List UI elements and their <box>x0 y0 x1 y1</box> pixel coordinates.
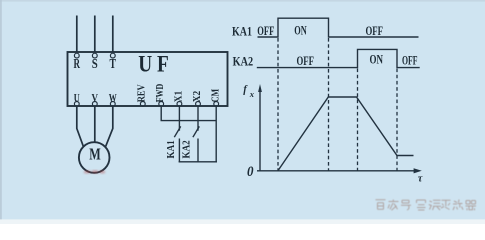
svg-text:f: f <box>243 85 248 96</box>
waveform KA1 <box>258 18 419 37</box>
wire X2 lower <box>197 139 199 162</box>
wire CM down <box>215 106 217 162</box>
wire common bottom <box>179 161 217 163</box>
dashed line KA2 on edge <box>357 69 359 171</box>
photo edge top <box>0 0 485 2</box>
f axis vertical <box>259 88 261 171</box>
dashed line KA1 on edge <box>277 38 279 171</box>
switch KA2 <box>193 126 199 137</box>
wire V to motor <box>94 106 96 142</box>
motor M1 <box>79 142 110 173</box>
terminal V <box>92 102 97 107</box>
inverter block U1 <box>68 52 228 106</box>
wire FWD to CM <box>161 106 216 120</box>
svg-text:U F: U F <box>138 52 169 77</box>
wire T input <box>112 16 114 53</box>
svg-text:KA1: KA1 <box>166 140 177 158</box>
wire X1 upper <box>178 106 180 130</box>
frequency curve <box>278 97 414 171</box>
svg-text:ON: ON <box>370 52 384 67</box>
terminal X2 <box>196 102 201 107</box>
wire U to motor <box>77 106 84 147</box>
watermark bottom right <box>376 200 477 211</box>
terminal S <box>92 53 97 58</box>
terminal R <box>74 53 79 58</box>
svg-text:REV: REV <box>137 84 148 103</box>
photo edge left <box>0 0 2 224</box>
terminal REV <box>140 102 145 107</box>
svg-text:V: V <box>92 90 99 104</box>
svg-text:X1: X1 <box>174 91 185 103</box>
dashed line KA2 off edge <box>396 69 398 171</box>
svg-text:OFF: OFF <box>296 53 314 68</box>
terminal X1 <box>177 102 182 107</box>
svg-text:KA2: KA2 <box>181 140 192 158</box>
wire W to motor <box>106 106 113 147</box>
svg-text:OFF: OFF <box>365 23 383 38</box>
svg-text:KA1: KA1 <box>232 23 252 38</box>
terminal CM <box>214 102 219 107</box>
dashed line KA1 off edge <box>328 38 330 171</box>
wire X1 lower <box>178 139 180 162</box>
svg-text:M: M <box>89 145 101 164</box>
wire R input <box>76 16 78 53</box>
f axis horizontal <box>257 170 415 172</box>
svg-text:X2: X2 <box>192 91 203 103</box>
wire S input <box>94 16 96 53</box>
svg-text:OFF: OFF <box>257 23 274 38</box>
terminal FWD <box>159 102 164 107</box>
svg-text:ON: ON <box>294 23 307 38</box>
photo edge bottom white strip <box>0 219 485 224</box>
arrowhead f axis vertical <box>258 84 262 92</box>
svg-text:W: W <box>109 90 117 104</box>
svg-text:S: S <box>92 56 98 71</box>
svg-text:x: x <box>249 89 255 99</box>
svg-text:OFF: OFF <box>402 53 418 68</box>
terminal W <box>110 102 115 107</box>
terminal U <box>74 102 79 107</box>
svg-text:T: T <box>110 56 117 71</box>
wire X2 upper <box>197 106 199 130</box>
waveform KA2 <box>257 49 420 67</box>
switch KA1 <box>174 126 180 137</box>
svg-text:U: U <box>74 90 80 104</box>
svg-text:τ: τ <box>418 174 423 185</box>
terminal T <box>110 53 115 58</box>
svg-text:KA2: KA2 <box>233 54 254 69</box>
svg-text:CM: CM <box>210 88 221 102</box>
svg-text:0: 0 <box>247 164 254 180</box>
svg-text:FWD: FWD <box>155 84 166 103</box>
svg-text:R: R <box>74 56 81 71</box>
red watermark under motor <box>84 170 105 173</box>
arrowhead f axis horizontal <box>414 168 422 173</box>
